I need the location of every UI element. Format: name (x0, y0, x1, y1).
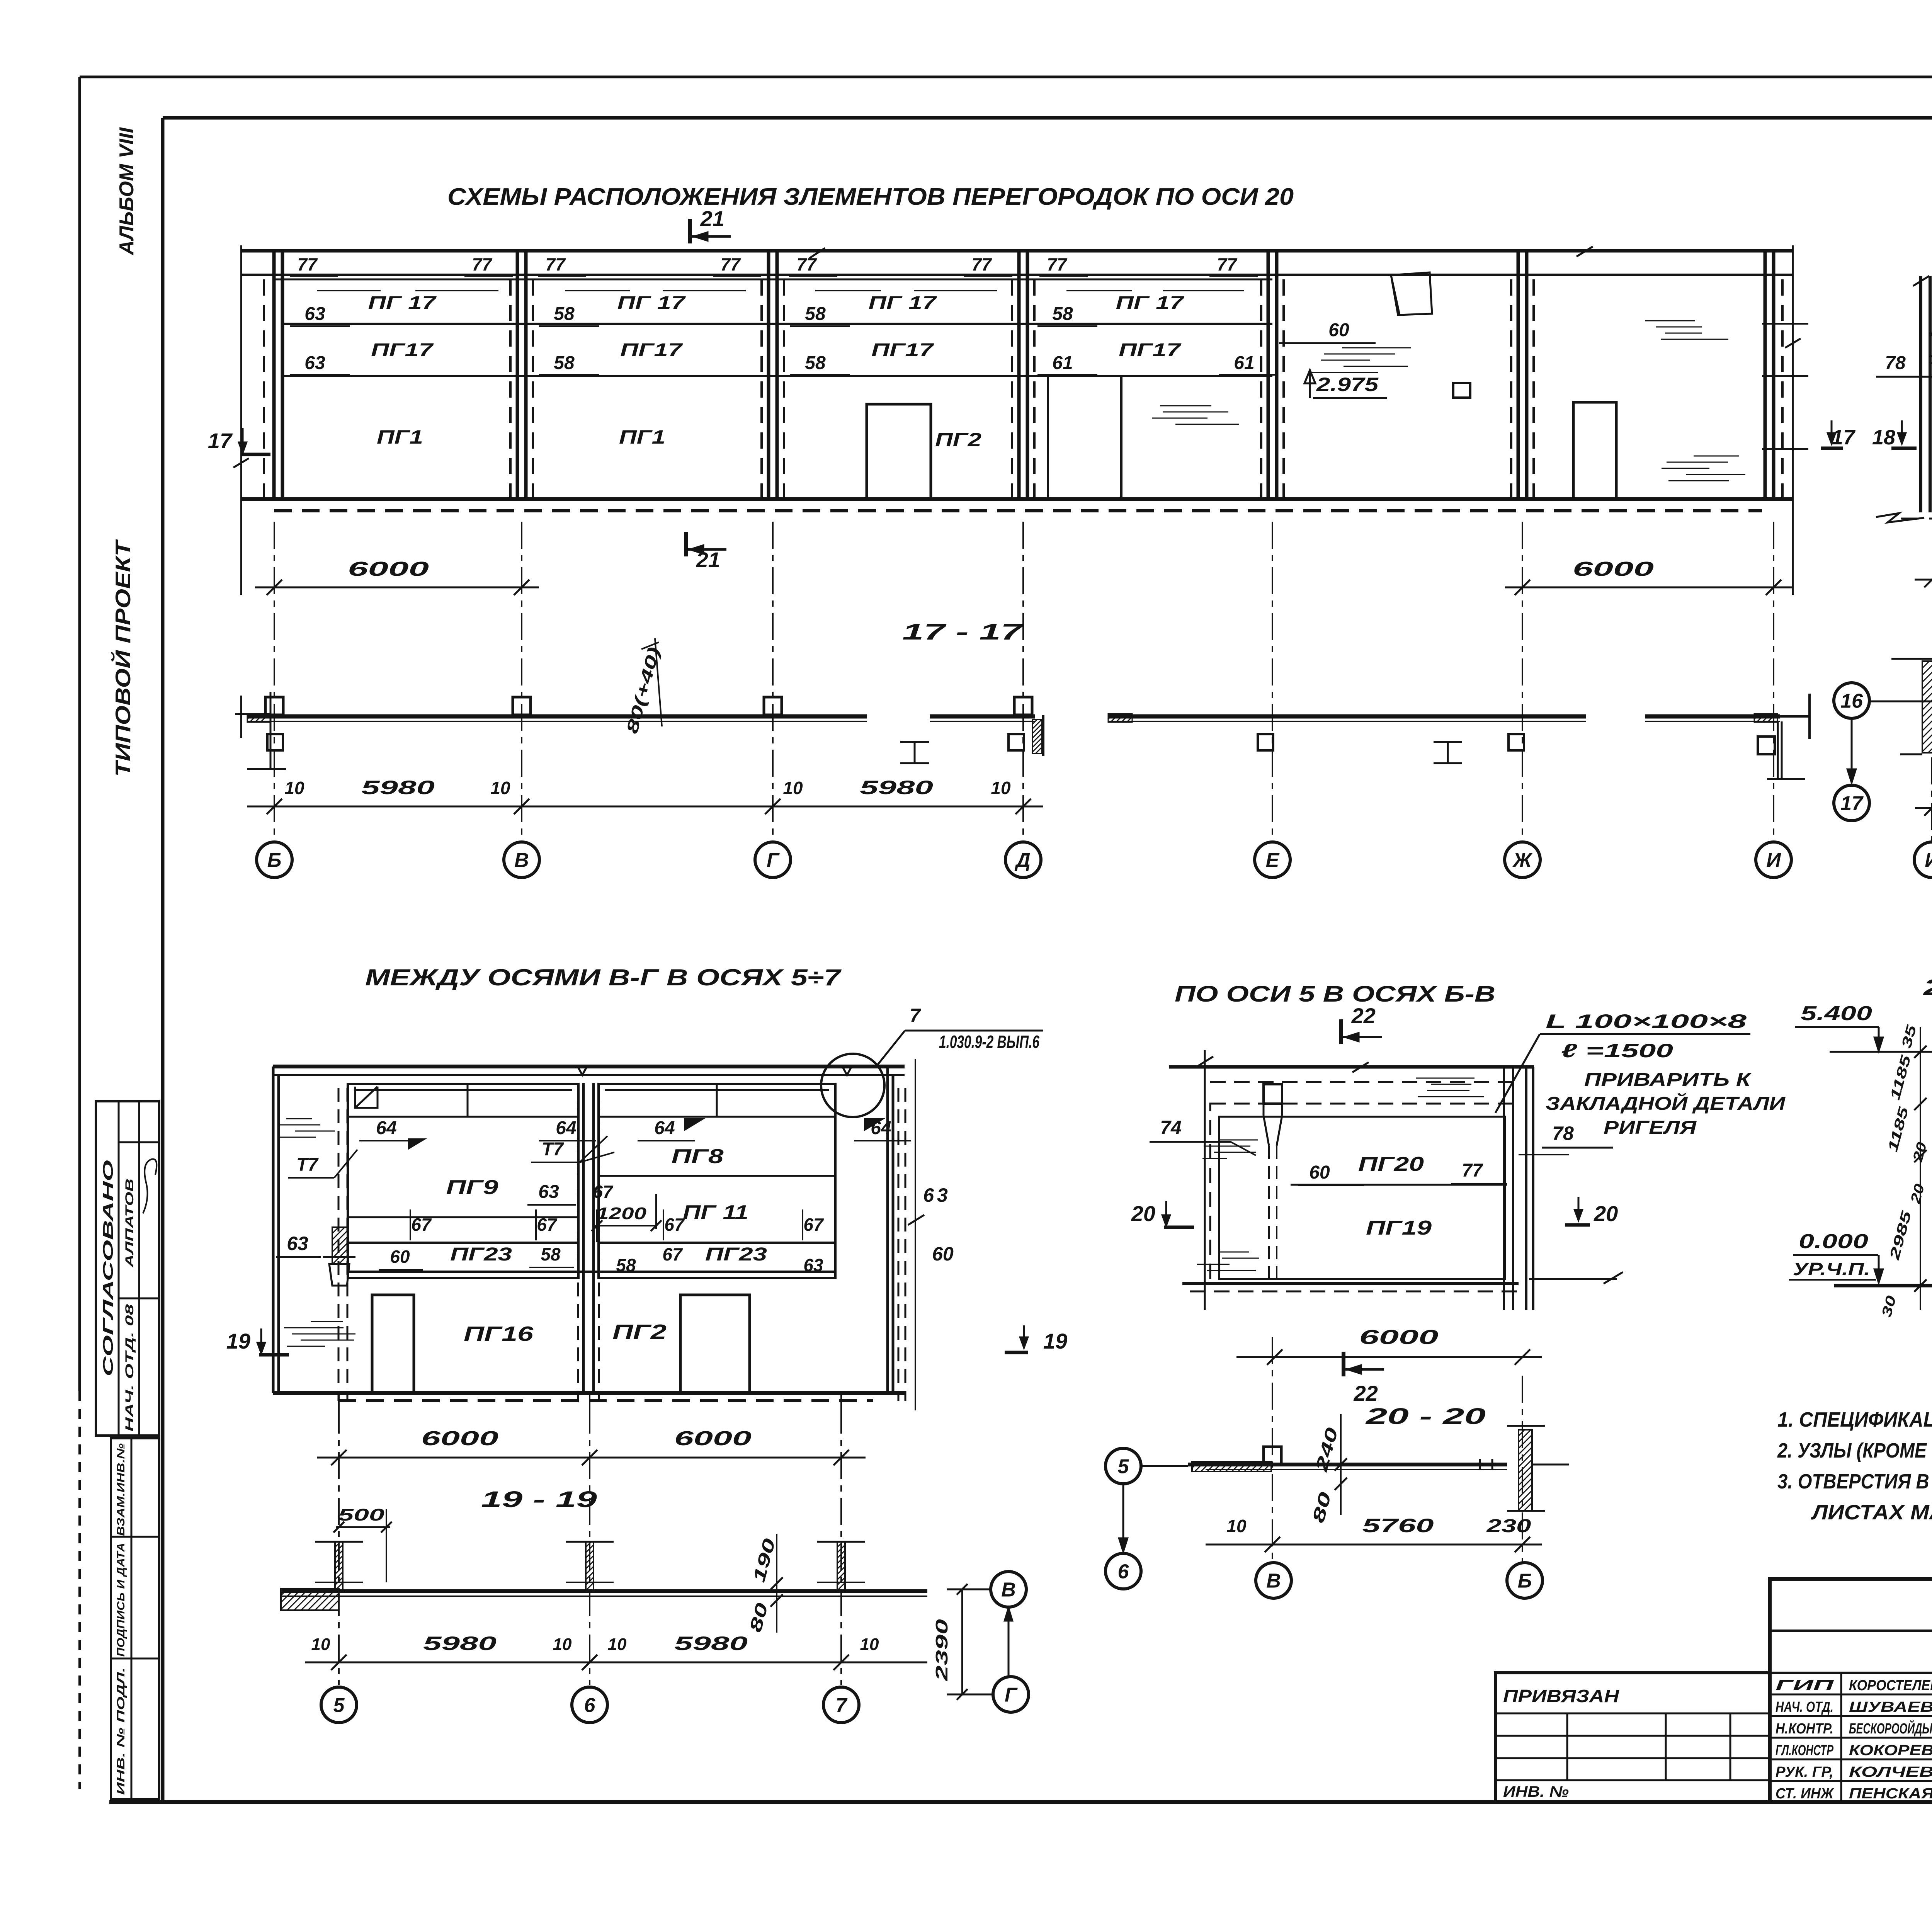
svg-text:64: 64 (654, 1118, 675, 1138)
elevation po osi 16: bottom dashed (1901, 518, 1932, 520)
svg-text:60: 60 (390, 1247, 410, 1267)
svg-text:0.000: 0.000 (1799, 1230, 1868, 1253)
elevation po osi 20: door in bay G-D (867, 404, 931, 499)
svg-text:10: 10 (860, 1635, 879, 1654)
elevation po osi 20: end extension lines (240, 245, 242, 595)
svg-text:Г: Г (1005, 1684, 1018, 1706)
svg-text:ПГ9: ПГ9 (446, 1176, 498, 1199)
svg-text:5: 5 (1118, 1456, 1129, 1478)
svg-text:Б: Б (267, 849, 282, 872)
plan 17-17: column squares above wall (265, 697, 283, 715)
svg-text:21: 21 (696, 548, 720, 572)
plan 19-19: top dim 6000 6000 (317, 1457, 866, 1459)
svg-text:67: 67 (593, 1182, 614, 1202)
svg-text:ПГ1: ПГ1 (619, 426, 665, 448)
title block: privyazan table (1495, 1673, 1770, 1802)
plan 20-20: wall (1188, 1463, 1507, 1466)
plan 19-19: column webs (335, 1542, 343, 1591)
marker arrow 16 to 17 (1851, 718, 1853, 777)
elevation po osi 20: vent flap (1391, 272, 1432, 315)
elev osi5: column at V with capital (1264, 1084, 1282, 1104)
elevation po osi 20: right wall level ticks (1762, 323, 1808, 325)
svg-text:РИГЕЛЯ: РИГЕЛЯ (1604, 1118, 1697, 1138)
plan 20-20: right pier (1519, 1430, 1532, 1511)
svg-text:6000: 6000 (421, 1427, 498, 1450)
svg-text:63: 63 (803, 1255, 823, 1275)
svg-text:ℓ =1500: ℓ =1500 (1561, 1040, 1673, 1061)
title block: rows (1770, 1630, 1932, 1632)
elevation po osi 20: panel top seams (317, 290, 381, 291)
elevation po osi 20: panel row lines (274, 279, 1272, 281)
svg-text:ПГ17: ПГ17 (371, 340, 434, 361)
svg-text:ПЕНСКАЯ: ПЕНСКАЯ (1849, 1786, 1932, 1802)
svg-text:77: 77 (971, 254, 992, 274)
svg-text:77: 77 (720, 254, 741, 274)
svg-text:60: 60 (932, 1243, 954, 1265)
elev V-G: row lines (348, 1216, 578, 1218)
svg-text:ПРИВЯЗАН: ПРИВЯЗАН (1503, 1686, 1619, 1706)
svg-text:ПГ 17: ПГ 17 (368, 293, 437, 313)
svg-text:ПОДПИСЬ И ДАТА: ПОДПИСЬ И ДАТА (115, 1543, 127, 1657)
svg-text:НАЧ. ОТД. 08: НАЧ. ОТД. 08 (123, 1304, 136, 1432)
svg-text:6000: 6000 (674, 1427, 752, 1450)
svg-text:58: 58 (1052, 304, 1073, 324)
svg-text:ПГ 17: ПГ 17 (1116, 293, 1185, 313)
plan 20-20: column square (1264, 1447, 1281, 1465)
svg-text:22: 22 (1351, 1004, 1376, 1028)
plan 19-19: axes (339, 1407, 841, 1685)
elevation po osi 16: roof band (1930, 333, 1932, 336)
svg-text:ПО ОСИ 5 В ОСЯХ Б-В: ПО ОСИ 5 В ОСЯХ Б-В (1175, 981, 1495, 1007)
plan 19-19: axis circles 5 6 7 (321, 1687, 357, 1723)
svg-text:58: 58 (805, 304, 826, 324)
dims 6000 6000 right elevation (1915, 579, 1932, 581)
svg-text:67: 67 (411, 1214, 432, 1235)
svg-text:НАЧ. ОТД.: НАЧ. ОТД. (1776, 1699, 1833, 1715)
elevation po osi 20: opening in bay D-E (1047, 377, 1049, 499)
svg-text:ПГ17: ПГ17 (871, 340, 934, 361)
inner drawing frame (163, 116, 1932, 120)
elev V-G: bottom lines (273, 1391, 905, 1395)
plan 17-17: axis circles (257, 842, 292, 878)
elev V-G: top strip dividers (467, 1084, 469, 1117)
svg-text:6000: 6000 (348, 558, 429, 580)
upper margin table (soglasovano) (96, 1101, 159, 1436)
svg-text:ПГ16: ПГ16 (464, 1322, 534, 1345)
elev osi5: bottom (1182, 1282, 1519, 1285)
svg-text:В: В (1001, 1579, 1016, 1601)
plan 20-20: circles (1256, 1563, 1291, 1598)
svg-text:17: 17 (1832, 426, 1856, 449)
svg-text:19 - 19: 19 - 19 (481, 1487, 597, 1512)
elev osi5: top line (1169, 1065, 1534, 1069)
svg-text:77: 77 (1047, 254, 1068, 274)
svg-text:Н.КОНТР.: Н.КОНТР. (1776, 1721, 1833, 1737)
svg-text:77: 77 (1462, 1160, 1483, 1181)
svg-text:БЕСКОРООЙДЫЙ: БЕСКОРООЙДЫЙ (1849, 1720, 1932, 1737)
title block: outer (1770, 1579, 1932, 1802)
section flag 21 bottom (684, 532, 688, 556)
svg-text:6: 6 (1118, 1561, 1129, 1583)
svg-text:78: 78 (1552, 1123, 1574, 1144)
elev osi5: right wall (1504, 1067, 1513, 1310)
svg-text:58: 58 (805, 353, 826, 373)
svg-text:230: 230 (1486, 1516, 1531, 1536)
elevation po osi 16: left wall (1919, 276, 1922, 512)
plan 17-17: I-beam symbols (1434, 742, 1462, 763)
plan 17-17: wall (247, 714, 867, 719)
svg-text:2390: 2390 (932, 1619, 951, 1681)
plan 19-19: wall (282, 1589, 927, 1593)
svg-text:2. УЗЛЫ (КРОМЕ ОГОВОРЕННЫХ): 2. УЗЛЫ (КРОМЕ ОГОВОРЕННЫХ) РАЗРАБОТАНЫ … (1777, 1439, 1932, 1462)
elev V-G: detail circle (821, 1054, 884, 1117)
plan 18-18: top line at I (1891, 658, 1932, 660)
elevation po osi 20: door in bay Zh-I (1573, 402, 1616, 499)
svg-text:16: 16 (1840, 690, 1863, 713)
plan 17-17: axis lines (274, 522, 1774, 842)
svg-text:ВЗАМ.ИНВ.№: ВЗАМ.ИНВ.№ (115, 1443, 127, 1536)
svg-text:7: 7 (836, 1694, 848, 1717)
svg-text:67: 67 (537, 1214, 558, 1235)
svg-text:63: 63 (287, 1233, 308, 1254)
svg-text:74: 74 (1160, 1117, 1182, 1138)
svg-text:21: 21 (700, 206, 724, 231)
elev osi5: watermarks (1416, 1078, 1475, 1079)
svg-text:10: 10 (553, 1635, 572, 1654)
svg-text:ПГ23: ПГ23 (705, 1244, 767, 1265)
svg-text:500: 500 (338, 1505, 385, 1524)
svg-text:10: 10 (608, 1635, 627, 1654)
svg-text:ПГ20: ПГ20 (1358, 1153, 1424, 1175)
svg-text:КОЛЧЕВ: КОЛЧЕВ (1849, 1764, 1932, 1780)
svg-text:В: В (1266, 1570, 1281, 1592)
dim 6000 bay Zh-I (1505, 587, 1793, 589)
svg-text:ПГ1: ПГ1 (377, 426, 423, 448)
svg-text:5980: 5980 (674, 1633, 748, 1654)
plan 20-20: axes (1272, 1337, 1522, 1563)
svg-text:Г: Г (767, 849, 780, 872)
svg-text:Е: Е (1266, 849, 1280, 872)
svg-text:77: 77 (796, 254, 817, 274)
svg-text:10: 10 (284, 778, 304, 798)
svg-text:20: 20 (1594, 1201, 1618, 1226)
svg-text:1. СПЕЦИФИКАЦИЯ ЗЛЕМЕНТОВ И: 1. СПЕЦИФИКАЦИЯ ЗЛЕМЕНТОВ И УКАЗАНИЯ НА … (1777, 1408, 1932, 1431)
flag 22 bottom (1342, 1352, 1345, 1376)
svg-text:7: 7 (910, 1005, 921, 1026)
svg-text:ПГ19: ПГ19 (1366, 1217, 1432, 1239)
svg-text:КОРОСТЕЛЕВ: КОРОСТЕЛЕВ (1849, 1677, 1932, 1694)
plan 19-19: bottom dim (305, 1662, 927, 1664)
svg-text:67: 67 (803, 1214, 824, 1235)
svg-text:10: 10 (1226, 1516, 1247, 1536)
elev osi5: dashed top strip (1210, 1081, 1513, 1083)
svg-text:64: 64 (871, 1118, 891, 1138)
svg-text:КОКОРЕВ: КОКОРЕВ (1849, 1742, 1932, 1759)
svg-text:ПГ2: ПГ2 (612, 1320, 667, 1344)
svg-text:ПГ23: ПГ23 (450, 1244, 512, 1265)
small outlet box (1453, 383, 1470, 398)
plan 17-17: left end details (240, 696, 242, 738)
svg-text:22: 22 (1354, 1381, 1378, 1405)
svg-text:77: 77 (472, 254, 493, 274)
elev osi5: dashed panel box (1210, 1104, 1513, 1284)
svg-text:МЕЖДУ ОСЯМИ В-Г В ОСЯХ 5÷: МЕЖДУ ОСЯМИ В-Г В ОСЯХ 5÷7 (365, 964, 842, 990)
svg-text:10: 10 (991, 778, 1011, 798)
elev osi5: left axis (1204, 1050, 1206, 1310)
svg-text:Д: Д (1014, 849, 1031, 872)
svg-text:18: 18 (1872, 426, 1895, 449)
plan 20-20: dim line (1206, 1544, 1542, 1546)
svg-text:58: 58 (554, 353, 575, 373)
svg-text:ПРИВАРИТЬ К: ПРИВАРИТЬ К (1584, 1070, 1752, 1090)
svg-text:17: 17 (1840, 793, 1864, 815)
svg-text:АЛЬБОМ VIII: АЛЬБОМ VIII (116, 127, 138, 256)
svg-text:58: 58 (616, 1255, 636, 1275)
svg-text:67: 67 (664, 1214, 685, 1235)
sheet outer border (80, 76, 1932, 78)
svg-text:60: 60 (1328, 320, 1349, 340)
dim 6000 bay B-V (255, 587, 539, 589)
svg-text:1200: 1200 (596, 1204, 647, 1223)
svg-text:ПГ8: ПГ8 (672, 1145, 724, 1168)
title block: left signature grid (1770, 1694, 1932, 1696)
elevation po osi 20: top chord (241, 249, 1793, 253)
marker circle 16 (1834, 683, 1869, 718)
section flag 21 top (688, 219, 692, 243)
svg-text:ТИПОВОЙ ПРОЕКТ: ТИПОВОЙ ПРОЕКТ (111, 539, 135, 777)
plan 18-18: brick wall pier at I (1922, 661, 1932, 753)
svg-text:20 - 20: 20 - 20 (1365, 1404, 1486, 1429)
svg-text:СХЕМЫ РАСПОЛОЖЕНИЯ ЗЛЕМЕНТОВ: СХЕМЫ РАСПОЛОЖЕНИЯ ЗЛЕМЕНТОВ ПЕРЕГОРОДОК… (447, 184, 1294, 210)
svg-text:5760: 5760 (1362, 1515, 1434, 1536)
svg-text:6000: 6000 (1359, 1326, 1439, 1349)
markers 5 to 6 (1105, 1448, 1141, 1484)
svg-text:ГЛ.КОНСТР: ГЛ.КОНСТР (1776, 1742, 1833, 1759)
section 21-21: ground line (1834, 1284, 1932, 1288)
elev V-G: top double line (273, 1065, 905, 1068)
svg-text:ИНВ. № ПОДЛ.: ИНВ. № ПОДЛ. (115, 1667, 127, 1795)
svg-text:ПГ 11: ПГ 11 (683, 1201, 748, 1224)
watermarks elevation 1 (1160, 405, 1211, 407)
plan 18-18: dim line (1915, 807, 1932, 809)
elev V-G: bay frames (348, 1084, 578, 1278)
svg-text:10: 10 (490, 778, 510, 798)
svg-text:ПГ17: ПГ17 (1119, 340, 1182, 361)
marker circle 17 (1834, 785, 1869, 821)
svg-text:В: В (514, 849, 529, 872)
svg-text:19: 19 (226, 1329, 250, 1353)
svg-text:Т7: Т7 (296, 1155, 319, 1175)
svg-text:СОГЛАСОВАНО: СОГЛАСОВАНО (100, 1160, 116, 1376)
plan 17-17: hatched wall pieces (1108, 714, 1132, 722)
elev osi5: dim 6000 (1236, 1356, 1542, 1358)
svg-text:63: 63 (304, 353, 325, 373)
svg-text:63: 63 (304, 304, 325, 324)
elevation po osi 20: bottom wall line (241, 497, 1793, 501)
elev V-G: doors (372, 1295, 414, 1393)
svg-text:20: 20 (1131, 1201, 1155, 1226)
plan 20-20: clamp (1480, 1459, 1492, 1470)
plan 17-17: small squares below wall (267, 734, 283, 750)
plan 18-18: axis circles (1914, 842, 1932, 878)
svg-text:77: 77 (1217, 254, 1238, 274)
svg-text:ПГ 17: ПГ 17 (617, 293, 686, 313)
elev V-G: hatched pier left (332, 1227, 348, 1264)
svg-text:5980: 5980 (860, 777, 933, 798)
svg-text:И: И (1925, 849, 1932, 872)
svg-text:СТ. ИНЖ: СТ. ИНЖ (1776, 1786, 1834, 1802)
svg-text:Б: Б (1518, 1570, 1532, 1592)
elev V-G: boundaries (273, 1067, 279, 1393)
svg-text:58: 58 (541, 1244, 561, 1264)
svg-text:3. ОТВЕРСТИЯ В КИРПИЧНЫХ ПЕ: 3. ОТВЕРСТИЯ В КИРПИЧНЫХ ПЕРЕГОРОДКАХ СМ… (1777, 1470, 1932, 1493)
svg-text:63: 63 (538, 1182, 559, 1202)
plan 17-17: dim line 10 5980 10 (247, 806, 1043, 808)
svg-text:РУК. ГР,: РУК. ГР, (1776, 1764, 1833, 1780)
svg-text:17 - 17: 17 - 17 (902, 619, 1024, 645)
svg-text:5.400: 5.400 (1801, 1002, 1872, 1025)
svg-text:61: 61 (1052, 353, 1073, 373)
svg-text:ЛИСТАХ МАРКИ АР: ЛИСТАХ МАРКИ АР (1811, 1501, 1932, 1524)
lower margin table (inv/podp) (111, 1438, 159, 1799)
elev osi5: solid panel box (1219, 1117, 1505, 1279)
svg-text:10: 10 (311, 1635, 330, 1654)
break marks top chord (810, 247, 1593, 258)
svg-text:АЛПАТОВ: АЛПАТОВ (123, 1179, 136, 1268)
plan 19-19: flange marks (315, 1582, 865, 1583)
svg-text:ГИП: ГИП (1776, 1677, 1834, 1694)
elev osi5: divider + labels (1291, 1184, 1507, 1186)
svg-text:ИНВ. №: ИНВ. № (1503, 1783, 1569, 1800)
svg-text:77: 77 (297, 254, 318, 274)
section 21-21: dim chain (1920, 1027, 1921, 1310)
svg-text:1.030.9-2 ВЫП.6: 1.030.9-2 ВЫП.6 (939, 1032, 1039, 1052)
svg-text:67: 67 (662, 1244, 683, 1264)
svg-text:64: 64 (376, 1118, 396, 1138)
elev V-G: corner squares T7 (355, 1087, 378, 1108)
svg-text:19: 19 (1043, 1329, 1067, 1353)
svg-text:ПГ 17: ПГ 17 (869, 293, 937, 313)
svg-text:61: 61 (1234, 353, 1254, 373)
svg-text:58: 58 (554, 304, 575, 324)
svg-text:ПГ17: ПГ17 (620, 340, 683, 361)
svg-text:5980: 5980 (361, 777, 435, 798)
svg-text:ШУВАЕВ: ШУВАЕВ (1849, 1699, 1932, 1715)
svg-text:ЗАКЛАДНОЙ ДЕТАЛИ: ЗАКЛАДНОЙ ДЕТАЛИ (1546, 1093, 1786, 1114)
svg-text:И: И (1766, 849, 1781, 872)
svg-text:77: 77 (545, 254, 566, 274)
svg-text:6000: 6000 (1573, 558, 1654, 580)
svg-text:17: 17 (208, 429, 233, 453)
plan 17-17: T-bracket at I (1808, 694, 1811, 739)
svg-text:21- 21: 21- 21 (1923, 975, 1932, 1000)
svg-text:60: 60 (1309, 1162, 1330, 1183)
flag 22 top (1339, 1019, 1343, 1044)
elevation po osi 20: columns (274, 251, 1774, 499)
svg-text:2.975: 2.975 (1316, 374, 1379, 395)
svg-text:L 100×100×8: L 100×100×8 (1546, 1010, 1747, 1032)
svg-text:5980: 5980 (423, 1633, 497, 1654)
svg-text:78: 78 (1885, 353, 1906, 373)
plan 19-19: circles V G right (991, 1572, 1026, 1607)
svg-text:63: 63 (923, 1184, 951, 1206)
plan 17-17: T-bracket at D (1032, 720, 1042, 754)
svg-text:6: 6 (584, 1694, 596, 1717)
svg-text:Т7: Т7 (542, 1139, 564, 1160)
svg-text:5: 5 (333, 1694, 345, 1717)
svg-text:ПГ2: ПГ2 (935, 429, 981, 451)
svg-text:Ж: Ж (1512, 849, 1533, 872)
svg-text:64: 64 (556, 1118, 576, 1138)
svg-text:10: 10 (783, 778, 803, 798)
svg-text:УР.Ч.П.: УР.Ч.П. (1793, 1259, 1870, 1279)
elev V-G: watermarks (286, 1118, 312, 1119)
